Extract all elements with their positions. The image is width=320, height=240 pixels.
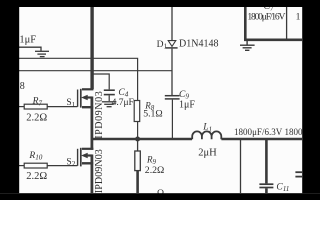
svg-text:D1N4148: D1N4148 — [179, 39, 218, 50]
svg-text:2.2Ω: 2.2Ω — [145, 165, 165, 176]
svg-text:D1: D1 — [157, 40, 168, 51]
ground (below 1uF wire) — [35, 51, 49, 56]
svg-text:R7: R7 — [32, 97, 43, 108]
svg-text:C11: C11 — [276, 182, 289, 193]
svg-text:R10: R10 — [28, 151, 42, 162]
wire (Q1 source / rail / Q2 drain thick vertical) — [91, 97, 94, 150]
svg-text:1800μF/6.3V 1800: 1800μF/6.3V 1800 — [234, 127, 303, 137]
resistor R8 — [134, 101, 140, 139]
svg-text:IPD09N03: IPD09N03 — [94, 91, 105, 139]
resistor R9 — [135, 140, 141, 193]
svg-text:IPD09N03: IPD09N03 — [94, 149, 105, 193]
capacitor C9 — [165, 96, 180, 138]
svg-text:1: 1 — [296, 12, 301, 23]
svg-text:5.1Ω: 5.1Ω — [143, 108, 163, 119]
resistor R10 — [19, 163, 77, 168]
wire (Q2 source to bottom) — [91, 155, 94, 194]
junction (R8/R9 on rail) — [135, 137, 140, 142]
svg-text:1800μF/16V: 1800μF/16V — [247, 12, 285, 23]
ground (below C4) — [102, 102, 117, 107]
wire to off-page capacitor (1uF) top-left — [19, 47, 41, 51]
capacitor C11 — [259, 140, 273, 193]
svg-text:1μF: 1μF — [19, 35, 36, 46]
inductor L1 — [192, 131, 221, 139]
svg-text:S2: S2 — [66, 157, 75, 168]
svg-text:S1: S1 — [66, 98, 75, 109]
capacitor C7 branch: thick feed and ground bus (top right) — [244, 7, 247, 41]
capacitor C7 lead (thin, right) — [286, 7, 288, 40]
svg-text:2μH: 2μH — [198, 147, 217, 158]
diode D1 — [166, 7, 178, 95]
transistor Q2 (IPD09N03) — [78, 148, 94, 167]
border frame (scan mask) — [0, 0, 320, 7]
wire (thick drain feed from top) — [90, 7, 93, 89]
svg-text:2.2Ω: 2.2Ω — [26, 113, 47, 124]
capacitor C12 (plates at right edge) — [295, 172, 302, 176]
svg-text:2.2Ω: 2.2Ω — [26, 171, 47, 182]
transistor Q1 (IPD09N03) — [78, 89, 94, 108]
resistor R7 — [19, 104, 77, 109]
svg-text:4.7μF: 4.7μF — [112, 98, 134, 108]
svg-text:1μF: 1μF — [179, 100, 195, 111]
wire (upper long horizontal to R8 top) — [19, 58, 138, 100]
capacitor C4 — [92, 74, 115, 101]
svg-text:8: 8 — [20, 81, 25, 92]
wire (second long horizontal to diode column) — [19, 70, 172, 72]
wire (output rail) — [93, 138, 192, 140]
ground (top-right bus) — [240, 41, 255, 50]
wire (thin vertical below rail) — [240, 140, 242, 193]
svg-text:L1: L1 — [202, 123, 212, 134]
